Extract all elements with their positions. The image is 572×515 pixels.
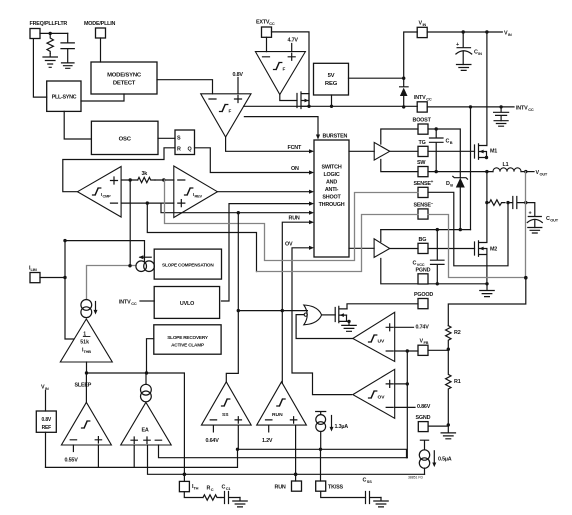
arrow ON into box bbox=[309, 170, 314, 174]
pin BG bbox=[418, 237, 428, 254]
node INTVCC drop bbox=[469, 105, 472, 108]
pin VIN bbox=[417, 21, 427, 38]
pin RUN bbox=[275, 481, 302, 491]
node junction CVCC on gate rail bbox=[436, 228, 439, 231]
svg-text:LIM: LIM bbox=[31, 267, 37, 272]
pin PGOOD bbox=[414, 292, 433, 309]
svg-text:DETECT: DETECT bbox=[113, 81, 136, 87]
wire BOOST right to DB bbox=[428, 129, 460, 178]
resistor 3k bbox=[138, 171, 155, 183]
op-amp SS comparator bbox=[201, 382, 251, 425]
svg-text:1: 1 bbox=[83, 332, 86, 338]
node junction RUN line to OR gate bbox=[281, 309, 284, 312]
wire INTVCC rail bbox=[244, 105, 514, 108]
op-amp ICMP bbox=[78, 167, 122, 218]
svg-text:PLL-SYNC: PLL-SYNC bbox=[52, 95, 77, 101]
wire INTVCC down to gate rail bbox=[470, 107, 472, 230]
label 0.55V bbox=[72, 445, 74, 452]
ground under CLP bbox=[62, 63, 75, 68]
svg-text:AND: AND bbox=[326, 180, 337, 186]
pin TK/SS bbox=[316, 481, 344, 491]
svg-text:TH: TH bbox=[194, 486, 199, 491]
wire PGND bbox=[381, 259, 487, 284]
wire MODE pin to detect box bbox=[100, 38, 102, 62]
node M3 on rail bbox=[307, 105, 310, 108]
inductor L1 bbox=[493, 162, 521, 172]
svg-text:CC: CC bbox=[426, 97, 432, 102]
wire PGOOD drain bbox=[347, 304, 418, 309]
wire UVLO to box bbox=[222, 204, 310, 301]
node CB top bbox=[435, 127, 438, 130]
capacitor INTVCC bypass bbox=[494, 107, 509, 121]
block SWITCH LOGIC AND ANTI-SHOOT THROUGH bbox=[314, 140, 349, 257]
svg-text:OUT: OUT bbox=[540, 172, 548, 177]
label 0.64V bbox=[212, 425, 214, 432]
svg-text:3k: 3k bbox=[142, 171, 148, 177]
pin SENSE+ bbox=[414, 179, 434, 197]
svg-text:F: F bbox=[283, 67, 286, 72]
node junction slope recovery on ITH line bbox=[145, 371, 148, 374]
pin SENSE- bbox=[414, 201, 434, 220]
svg-text:IN: IN bbox=[423, 22, 427, 27]
svg-text:IN: IN bbox=[478, 51, 482, 56]
svg-text:R2: R2 bbox=[454, 330, 461, 336]
op-amp EA bbox=[121, 402, 172, 445]
op-amp 0.8V comparator F bbox=[201, 94, 251, 137]
wire BURSTEN bbox=[244, 117, 318, 135]
svg-text:0.74V: 0.74V bbox=[416, 324, 430, 330]
node junction SS plus on TKSS rail bbox=[236, 448, 239, 451]
node junction ILIM upper corner bbox=[63, 239, 66, 242]
block 0.8V REF bbox=[36, 411, 56, 432]
node junction SS line to OR gate bbox=[237, 309, 240, 312]
transistor M3 bbox=[297, 92, 309, 109]
svg-text:LOGIC: LOGIC bbox=[323, 172, 339, 178]
ground CSS bbox=[374, 498, 388, 507]
svg-text:REV: REV bbox=[195, 193, 203, 198]
svg-text:RUN: RUN bbox=[289, 216, 300, 222]
transistor PGOOD pulldown bbox=[335, 306, 349, 322]
svg-text:OV: OV bbox=[285, 241, 293, 247]
ground under CIN bbox=[457, 65, 471, 71]
node junction 1.3uA on TKSS rail bbox=[319, 448, 322, 451]
wire OR out to gate bbox=[322, 314, 336, 316]
svg-text:C: C bbox=[211, 487, 214, 492]
wire ICMP minus to IREV plus bbox=[121, 202, 174, 204]
pin SW bbox=[417, 160, 428, 177]
svg-text:OV: OV bbox=[378, 395, 386, 401]
wire EA mirror up bbox=[145, 373, 147, 384]
wire RUN comparator to box bbox=[282, 222, 309, 383]
wire 5VREG bottom to rail bbox=[331, 95, 333, 106]
pin INTVCC bbox=[414, 95, 432, 112]
capacitor CVCC bbox=[413, 230, 445, 284]
transistor M1 bbox=[475, 144, 498, 160]
node junction VOUT node bbox=[524, 170, 527, 173]
transistor M2 bbox=[475, 241, 498, 256]
op-amp OV comparator bbox=[353, 369, 395, 418]
node junction ICMP plus at slope mirror bbox=[128, 264, 131, 267]
svg-text:CC: CC bbox=[269, 21, 275, 26]
resistor DCR sense bbox=[487, 200, 505, 206]
svg-text:R1: R1 bbox=[454, 379, 461, 385]
svg-text:+: + bbox=[529, 211, 532, 217]
svg-text:B: B bbox=[450, 183, 453, 188]
wire 5VREG out to diode line bbox=[349, 77, 404, 79]
wire 3k to IREV minus bbox=[155, 179, 174, 181]
block MODE/SYNC DETECT bbox=[91, 62, 157, 94]
wire FCNT bbox=[226, 137, 310, 151]
capacitor CSS bbox=[363, 478, 382, 504]
svg-text:Q: Q bbox=[188, 147, 192, 153]
wire VFB to OV plus and EA bbox=[395, 351, 408, 458]
ground under RLP bbox=[43, 54, 57, 68]
svg-text:OSC: OSC bbox=[119, 137, 132, 143]
svg-text:1.2V: 1.2V bbox=[262, 438, 273, 444]
node junction CVCC at PGND bbox=[436, 282, 439, 285]
svg-text:CMP: CMP bbox=[103, 193, 112, 198]
wire EXTVCC pin to comparator minus bbox=[266, 37, 268, 51]
svg-text:FCNT: FCNT bbox=[288, 145, 302, 151]
svg-text:FREQ/PLLFLTR: FREQ/PLLFLTR bbox=[30, 21, 68, 27]
wire EXTVCC pin to M3 drain bbox=[272, 32, 310, 106]
wire VIN down to M1 drain bbox=[486, 32, 488, 146]
wire TG to M1 gate bbox=[428, 150, 475, 152]
wire VFB row bbox=[395, 349, 449, 352]
svg-text:S: S bbox=[177, 136, 181, 142]
wire M3 source to INTVCC rail bbox=[308, 94, 310, 107]
wire VOUT gray down bbox=[525, 172, 527, 278]
wire ITH node to box bbox=[161, 203, 310, 213]
node junction SS output on ITH line bbox=[237, 211, 240, 214]
svg-text:5V: 5V bbox=[328, 73, 335, 79]
wire SW node bbox=[428, 171, 493, 173]
op-amp EXTVCC comparator F bbox=[255, 52, 305, 95]
svg-text:INTV: INTV bbox=[414, 95, 426, 101]
wire SENSE+ gray net bbox=[165, 180, 419, 261]
svg-text:REF: REF bbox=[42, 425, 52, 431]
svg-text:MODE/SYNC: MODE/SYNC bbox=[107, 73, 142, 79]
capacitor COUT bbox=[526, 203, 559, 228]
buffer TG driver bbox=[349, 142, 418, 160]
wire SENSE- gray part bbox=[257, 215, 419, 272]
svg-text:0.64V: 0.64V bbox=[206, 438, 220, 444]
wire SENSE- net black part bbox=[147, 203, 256, 271]
block SLOPE COMPENSATION bbox=[154, 249, 221, 279]
op-amp RUN comparator bbox=[257, 382, 307, 425]
wire FREQ pin to PLL-SYNC bbox=[33, 39, 46, 97]
wire Q to ON input bbox=[195, 148, 310, 173]
svg-text:CC: CC bbox=[131, 301, 137, 306]
wire SW down to M2 drain bbox=[486, 172, 488, 242]
wire TKSS pin up bbox=[320, 449, 322, 481]
svg-text:PGOOD: PGOOD bbox=[414, 292, 433, 298]
node junction RUN pin node bbox=[294, 473, 298, 477]
svg-text:SLOPE COMPENSATION: SLOPE COMPENSATION bbox=[162, 262, 214, 267]
wire ITHB to ITH rail bbox=[87, 362, 185, 474]
svg-text:SWITCH: SWITCH bbox=[321, 165, 341, 171]
current mirror slope comp bbox=[136, 255, 154, 271]
node junction VFB to OV plus bbox=[406, 382, 409, 385]
wire OSC to S input bbox=[158, 137, 175, 139]
svg-text:+: + bbox=[456, 42, 459, 48]
svg-text:TG: TG bbox=[419, 140, 426, 146]
resistor RLP bbox=[47, 33, 53, 53]
svg-text:0.5µA: 0.5µA bbox=[438, 457, 452, 463]
flip-flop SR latch bbox=[175, 130, 195, 155]
ground under INTVCC cap bbox=[494, 121, 508, 127]
wire 4.7V to plus input bbox=[291, 44, 293, 52]
node junction SENSE- at VOUT line bbox=[524, 276, 528, 280]
wire VIN to ref bbox=[45, 391, 47, 412]
wire OV comparator to box bbox=[292, 248, 352, 395]
wire FREQ pin to RC bbox=[40, 32, 68, 34]
svg-text:+: + bbox=[431, 179, 434, 184]
current source 0.5uA bbox=[419, 440, 451, 474]
node CIN junction bbox=[462, 30, 465, 33]
svg-text:UV: UV bbox=[378, 339, 386, 345]
svg-text:FB: FB bbox=[424, 340, 429, 345]
svg-text:RUN: RUN bbox=[275, 485, 286, 491]
wire slope recovery to ITH line bbox=[147, 339, 154, 373]
svg-text:1.3µA: 1.3µA bbox=[335, 424, 349, 430]
label 0.74V bbox=[395, 326, 414, 328]
node junction ITHB output node bbox=[85, 371, 88, 374]
node junction M2 source at PGND bbox=[485, 282, 488, 285]
svg-text:THROUGH: THROUGH bbox=[319, 202, 345, 208]
svg-text:INTV: INTV bbox=[516, 106, 528, 112]
svg-text:B: B bbox=[450, 140, 453, 145]
svg-text:PGND: PGND bbox=[416, 268, 431, 274]
node junction ICMP plus node bbox=[129, 178, 132, 181]
node junction 5V REG output on INTVCC rail bbox=[330, 105, 333, 108]
wire REF rail bbox=[46, 432, 135, 467]
node M1 drain tap bbox=[485, 30, 488, 33]
wire ITH pin to RC bbox=[184, 492, 203, 498]
wire SENSE- right gray bbox=[428, 215, 526, 278]
node INTVCC cap bbox=[499, 105, 502, 108]
node junction VFB to UV minus bbox=[406, 349, 409, 352]
node FREQ-R junction bbox=[49, 32, 52, 35]
wire RUN plus down bbox=[295, 425, 297, 481]
resistor RC bbox=[203, 486, 221, 501]
node junction diode anode on INTVCC rail bbox=[402, 105, 405, 108]
node DB anode on rail bbox=[459, 228, 462, 231]
svg-text:RUN: RUN bbox=[272, 412, 283, 418]
wire slope gray bbox=[87, 266, 137, 300]
node junction DCR resistor at SW leg bbox=[485, 201, 488, 204]
svg-text:F: F bbox=[229, 109, 232, 114]
block OSC bbox=[91, 121, 158, 154]
node junction DCR cap at VOUT bbox=[524, 201, 527, 204]
svg-text:INTV: INTV bbox=[119, 300, 131, 306]
ground PGOOD mosfet bbox=[342, 321, 356, 331]
node junction DCR RC midpoint SENSE+ bbox=[506, 201, 509, 204]
current source ITHB bias bbox=[81, 300, 98, 318]
block PLL-SYNC bbox=[47, 81, 81, 111]
block SLOPE RECOVERY ACTIVE CLAMP bbox=[154, 325, 221, 354]
pin ITH bbox=[179, 481, 198, 491]
op-amp SLEEP comparator bbox=[61, 383, 111, 446]
node mosfet source gnd bbox=[347, 320, 350, 323]
svg-text:–: – bbox=[431, 201, 434, 206]
wire ICMP output to R input bbox=[63, 148, 175, 192]
pin EXTVCC bbox=[256, 20, 275, 38]
svg-text:SLEEP: SLEEP bbox=[75, 383, 92, 389]
wire SS out to ITH line bbox=[226, 213, 238, 382]
svg-text:ANTI-: ANTI- bbox=[325, 187, 339, 193]
diode bootstrap to INTVCC bbox=[400, 78, 409, 107]
pin TG bbox=[418, 140, 428, 157]
svg-text:L1: L1 bbox=[503, 162, 509, 168]
svg-text:BOOST: BOOST bbox=[413, 118, 432, 124]
svg-text:OUT: OUT bbox=[550, 218, 558, 223]
svg-text:REG: REG bbox=[325, 81, 338, 87]
svg-text:SHOOT: SHOOT bbox=[322, 195, 341, 201]
pin BOOST bbox=[413, 118, 432, 135]
wire SW left to driver bottom bbox=[381, 160, 418, 172]
wire EXTVCC comp out to M3 gate bbox=[280, 95, 297, 101]
svg-text:38851 FD: 38851 FD bbox=[408, 476, 423, 480]
capacitor CIN bbox=[456, 32, 482, 65]
svg-text:IN: IN bbox=[508, 32, 512, 37]
ground under COUT bbox=[528, 228, 542, 234]
svg-text:ACTIVE CLAMP: ACTIVE CLAMP bbox=[171, 342, 204, 347]
svg-text:SGND: SGND bbox=[416, 415, 431, 421]
svg-text:0.8V: 0.8V bbox=[42, 417, 52, 423]
wire ICMP plus down to slope node bbox=[129, 180, 131, 266]
wire VOUT to divider bbox=[448, 278, 526, 326]
wire ICMP plus to 3k bbox=[121, 179, 138, 181]
capacitor CB bbox=[430, 129, 453, 172]
node junction ITH pin node bbox=[183, 473, 187, 477]
wire M2 source to PGND bbox=[486, 255, 488, 284]
svg-text:MODE/PLLIN: MODE/PLLIN bbox=[84, 21, 116, 27]
label 0.86V bbox=[395, 406, 415, 408]
svg-text:0.86V: 0.86V bbox=[417, 404, 431, 410]
wire BG to M2 gate bbox=[428, 248, 475, 250]
amp ITHB buffer triangle bbox=[60, 319, 112, 362]
node junction ICMP minus IREV plus node bbox=[146, 201, 149, 204]
wire VIN rail right bbox=[427, 31, 502, 33]
label 1.2V bbox=[268, 425, 270, 432]
ground M2 source bbox=[480, 284, 494, 297]
pin PGND bbox=[416, 268, 431, 285]
pin VFB bbox=[418, 339, 429, 356]
capacitor CLP bbox=[61, 33, 74, 63]
wire SLEEP out up bbox=[85, 373, 87, 402]
wire IREV out to box bbox=[217, 191, 309, 193]
wire VFB rail EA minus bbox=[159, 445, 408, 458]
ground divider bbox=[441, 425, 455, 439]
node 5VREG junction bbox=[402, 77, 405, 80]
resistor R1 bbox=[446, 349, 461, 425]
wire SGND to divider ground bbox=[428, 425, 448, 427]
wire L1 to VOUT bbox=[521, 171, 534, 173]
capacitor CC1 bbox=[221, 485, 240, 504]
pin ILIM bbox=[29, 266, 40, 283]
pin FREQ/PLLFLTR bbox=[30, 21, 68, 39]
svg-text:R: R bbox=[177, 147, 181, 153]
svg-text:M2: M2 bbox=[490, 247, 497, 253]
resistor R2 bbox=[446, 326, 461, 350]
gate rail INTVCC to drivers bbox=[381, 229, 471, 231]
wire 0.8V to plus bbox=[237, 78, 239, 94]
wire UV out to OR bubble bbox=[296, 315, 353, 339]
svg-text:VCC: VCC bbox=[417, 262, 425, 267]
node junction ILIM node bbox=[63, 276, 66, 279]
rail SS TKSS bbox=[238, 449, 407, 457]
wire detect to 0.8V comp minus bbox=[157, 80, 213, 94]
block 5V REG bbox=[314, 63, 349, 95]
wire VIN pin left to 5VREG diode line bbox=[404, 32, 418, 78]
node junction R1 bottom at SGND bbox=[447, 423, 450, 426]
op-amp UV comparator bbox=[353, 312, 395, 361]
svg-text:SENSE: SENSE bbox=[414, 181, 432, 187]
wire ITH rail bbox=[148, 445, 425, 481]
node junction SW node bbox=[485, 170, 488, 173]
node junction CB on SW bbox=[435, 170, 438, 173]
svg-text:SS: SS bbox=[367, 479, 372, 484]
node junction M1 source bbox=[485, 156, 488, 159]
diode DB zener bbox=[446, 176, 468, 229]
svg-text:0.55V: 0.55V bbox=[65, 458, 79, 464]
node junction VFB divider tap bbox=[447, 348, 450, 351]
pin SGND bbox=[416, 415, 431, 432]
svg-text:THB: THB bbox=[84, 349, 92, 354]
pin MODE/PLLIN bbox=[84, 21, 116, 38]
svg-text:BURSTEN: BURSTEN bbox=[323, 134, 348, 140]
ground CC1 bbox=[233, 498, 247, 507]
svg-text:4.7V: 4.7V bbox=[288, 38, 299, 44]
svg-text:EXTV: EXTV bbox=[256, 20, 270, 26]
current source 1.3uA bbox=[316, 412, 349, 450]
current source EA bias bbox=[141, 384, 152, 401]
wire ILIM mirror feed bbox=[65, 241, 145, 339]
wire PLL-SYNC to OSC bbox=[64, 111, 91, 139]
wire SENSE+ right loop bbox=[428, 192, 508, 265]
svg-text:BG: BG bbox=[419, 237, 427, 243]
svg-text:ON: ON bbox=[291, 166, 299, 172]
wire detect to PLL-SYNC bbox=[81, 94, 124, 101]
svg-text:SENSE: SENSE bbox=[414, 203, 432, 209]
wire RUN line to OR input bbox=[238, 310, 307, 312]
gate OR for PGOOD bbox=[304, 305, 322, 325]
op-amp IREV bbox=[174, 166, 218, 218]
capacitor DCR sense bbox=[508, 197, 526, 209]
wire BOOST left to driver bbox=[381, 129, 418, 144]
wire TKSS pin to CSS bbox=[321, 491, 366, 497]
block UVLO bbox=[154, 287, 219, 319]
svg-text:51k: 51k bbox=[80, 340, 89, 346]
svg-text:SW: SW bbox=[417, 160, 426, 166]
svg-text:UVLO: UVLO bbox=[180, 301, 194, 307]
svg-text:M1: M1 bbox=[490, 149, 497, 155]
svg-text:SS: SS bbox=[222, 412, 229, 418]
buffer BG driver bbox=[349, 230, 418, 258]
svg-text:TK/SS: TK/SS bbox=[328, 485, 343, 491]
wire SS plus down bbox=[46, 425, 239, 467]
svg-text:CC: CC bbox=[528, 107, 534, 112]
wire ILIM to node bbox=[40, 277, 65, 279]
node junction 3k to IREV minus SENSE+ tap bbox=[162, 178, 165, 181]
svg-text:EA: EA bbox=[142, 428, 149, 434]
svg-text:SLOPE RECOVERY: SLOPE RECOVERY bbox=[167, 335, 209, 340]
